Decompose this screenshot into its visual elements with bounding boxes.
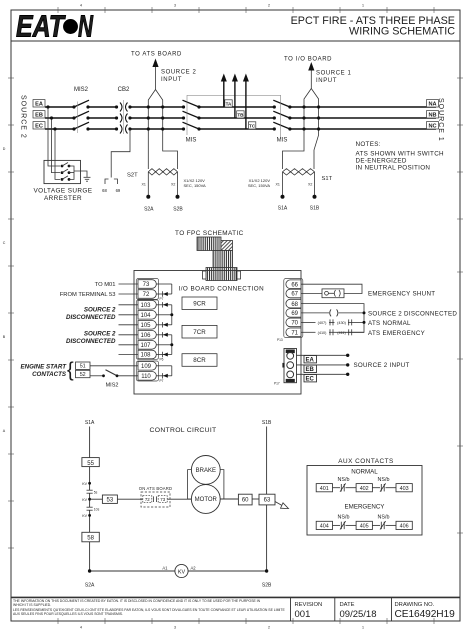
svg-text:X2: X2	[171, 183, 175, 187]
svg-text:SOURCE 2: SOURCE 2	[20, 95, 27, 139]
svg-text:403: 403	[400, 486, 409, 492]
svg-text:5s: 5s	[94, 490, 98, 494]
svg-text:S1B: S1B	[262, 420, 272, 426]
svg-text:SEC, 150VA: SEC, 150VA	[248, 183, 270, 188]
svg-text:(410): (410)	[318, 331, 328, 335]
svg-text:ENGINE START: ENGINE START	[21, 364, 68, 371]
svg-text:S2B: S2B	[262, 583, 272, 589]
svg-text:WIRING SCHEMATIC: WIRING SCHEMATIC	[349, 26, 455, 38]
svg-text:1: 1	[362, 4, 364, 8]
svg-text:X2: X2	[308, 183, 312, 187]
svg-text:S2T: S2T	[127, 173, 138, 179]
svg-text:MIS2: MIS2	[74, 87, 89, 93]
svg-text:10s: 10s	[94, 507, 100, 511]
svg-text:NS/b: NS/b	[338, 477, 350, 483]
svg-text:MOTOR: MOTOR	[195, 497, 218, 503]
svg-text:(407): (407)	[318, 321, 328, 325]
svg-text:2: 2	[268, 4, 270, 8]
svg-text:EA: EA	[35, 102, 43, 108]
svg-text:X1: X1	[276, 183, 280, 187]
svg-text:(411): (411)	[337, 331, 346, 335]
svg-text:CE16492H19: CE16492H19	[395, 609, 456, 620]
svg-text:KV: KV	[82, 514, 87, 518]
svg-text:S2B: S2B	[173, 207, 183, 213]
svg-text:DRAWING NO.: DRAWING NO.	[395, 602, 435, 608]
svg-text:EAT: EAT	[16, 9, 66, 44]
svg-text:2: 2	[268, 626, 270, 630]
svg-text:SOURCE 2 DISCONNECTED: SOURCE 2 DISCONNECTED	[368, 310, 457, 317]
svg-text:MIS: MIS	[186, 138, 197, 144]
svg-text:TO I/O BOARD: TO I/O BOARD	[284, 57, 332, 63]
svg-text:SOURCE 2: SOURCE 2	[161, 70, 197, 76]
svg-text:SOURCE 2: SOURCE 2	[84, 307, 116, 314]
svg-text:3: 3	[174, 4, 176, 8]
svg-text:NA: NA	[428, 102, 436, 108]
svg-text:N: N	[78, 9, 93, 44]
svg-text:CONTACTS: CONTACTS	[32, 371, 67, 378]
svg-text:P7: P7	[160, 379, 164, 383]
svg-text:S1A: S1A	[278, 206, 288, 212]
svg-text:EB: EB	[306, 367, 315, 373]
svg-text:EC: EC	[306, 377, 315, 383]
svg-text:60: 60	[242, 498, 249, 504]
svg-text:S1B: S1B	[310, 206, 320, 212]
svg-text:ON ATS BOARD: ON ATS BOARD	[139, 486, 173, 491]
svg-text:S2A: S2A	[85, 583, 95, 589]
svg-text:TB: TB	[237, 112, 244, 117]
svg-text:BRAKE: BRAKE	[196, 468, 216, 474]
svg-text:REVISION: REVISION	[295, 602, 323, 608]
svg-text:63: 63	[264, 498, 271, 504]
svg-text:SOURCE 2 INPUT: SOURCE 2 INPUT	[354, 362, 410, 369]
svg-text:9CR: 9CR	[193, 301, 206, 308]
svg-text:72: 72	[143, 292, 150, 298]
svg-text:P17: P17	[274, 382, 280, 386]
svg-text:09/25/18: 09/25/18	[340, 609, 377, 620]
svg-text:NORMAL: NORMAL	[351, 469, 378, 476]
svg-text:TO M01: TO M01	[95, 282, 116, 288]
svg-text:NC: NC	[428, 124, 436, 130]
svg-text:INPUT: INPUT	[316, 78, 337, 84]
svg-text:8CR: 8CR	[193, 357, 206, 364]
svg-text:KV: KV	[178, 569, 186, 575]
svg-text:NS/b: NS/b	[378, 477, 390, 483]
svg-text:NOTES:: NOTES:	[356, 141, 381, 148]
svg-text:FROM TERMINAL 53: FROM TERMINAL 53	[60, 292, 116, 298]
svg-text:110: 110	[141, 374, 151, 380]
svg-text:AUX SEULES FINS POUR LESQUELLE: AUX SEULES FINS POUR LESQUELLES ILS VOUS…	[13, 612, 123, 616]
svg-text:53: 53	[107, 498, 114, 504]
svg-text:68: 68	[291, 302, 298, 308]
svg-text:P6: P6	[160, 358, 164, 362]
svg-text:7CR: 7CR	[193, 329, 206, 336]
svg-text:67: 67	[291, 292, 298, 298]
svg-text:X1: X1	[142, 183, 146, 187]
svg-text:AUX CONTACTS: AUX CONTACTS	[338, 458, 394, 465]
svg-text:TA: TA	[226, 101, 232, 106]
svg-text:DATE: DATE	[340, 602, 355, 608]
svg-text:73: 73	[160, 497, 165, 502]
svg-text:CONTROL CIRCUIT: CONTROL CIRCUIT	[150, 427, 217, 434]
svg-text:ATS EMERGENCY: ATS EMERGENCY	[368, 330, 425, 337]
svg-text:SEC, 150VA: SEC, 150VA	[184, 183, 206, 188]
svg-text:72: 72	[145, 497, 150, 502]
svg-text:A1: A1	[162, 566, 168, 571]
svg-text:NS/b: NS/b	[338, 514, 350, 520]
svg-text:ARRESTER: ARRESTER	[44, 195, 82, 202]
svg-text:DE-ENERGIZED: DE-ENERGIZED	[356, 158, 407, 165]
svg-text:VOLTAGE SURGE: VOLTAGE SURGE	[34, 188, 93, 195]
svg-text:406: 406	[400, 524, 409, 530]
svg-text:WHICH IT IS SUPPLIED.: WHICH IT IS SUPPLIED.	[13, 603, 51, 607]
svg-text:X1/X2 120V: X1/X2 120V	[249, 178, 271, 183]
svg-text:66: 66	[291, 282, 298, 288]
svg-text:DISCONNECTED: DISCONNECTED	[66, 338, 116, 345]
svg-text:52: 52	[80, 372, 86, 378]
svg-text:{: {	[67, 360, 74, 382]
svg-text:4: 4	[80, 4, 82, 8]
svg-text:3: 3	[174, 626, 176, 630]
svg-text:71: 71	[291, 331, 298, 337]
svg-text:69: 69	[116, 188, 121, 193]
svg-text:51: 51	[80, 364, 86, 370]
svg-text:SOURCE 2: SOURCE 2	[84, 331, 116, 338]
svg-text:TC: TC	[249, 123, 256, 128]
svg-text:EB: EB	[35, 113, 43, 119]
svg-text:KV: KV	[82, 482, 87, 486]
svg-text:EMERGENCY SHUNT: EMERGENCY SHUNT	[368, 290, 435, 297]
svg-text:(430): (430)	[337, 321, 347, 325]
svg-text:55: 55	[87, 461, 94, 467]
svg-text:103: 103	[140, 303, 151, 309]
svg-text:DISCONNECTED: DISCONNECTED	[66, 314, 116, 321]
svg-text:SOURCE 1: SOURCE 1	[316, 71, 352, 77]
svg-text:P13: P13	[277, 338, 283, 342]
svg-text:X1/X2 120V: X1/X2 120V	[184, 178, 206, 183]
svg-text:EA: EA	[306, 358, 315, 364]
svg-text:INPUT: INPUT	[161, 77, 182, 83]
svg-text:69: 69	[291, 311, 298, 317]
svg-text:106: 106	[140, 333, 151, 339]
svg-text:A2: A2	[191, 566, 197, 571]
svg-text:108: 108	[140, 353, 151, 359]
svg-text:S2A: S2A	[144, 207, 154, 213]
svg-text:EC: EC	[35, 124, 43, 130]
svg-text:70: 70	[291, 321, 298, 327]
svg-text:TO ATS BOARD: TO ATS BOARD	[131, 52, 182, 58]
svg-text:ATS SHOWN WITH SWITCH: ATS SHOWN WITH SWITCH	[356, 151, 445, 158]
svg-text:1: 1	[362, 626, 364, 630]
svg-text:107: 107	[140, 343, 151, 349]
svg-text:73: 73	[143, 282, 150, 288]
svg-text:105: 105	[140, 323, 151, 329]
svg-text:NB: NB	[428, 113, 436, 119]
svg-text:ATS NORMAL: ATS NORMAL	[368, 320, 411, 327]
svg-text:IN NEUTRAL POSITION: IN NEUTRAL POSITION	[356, 165, 431, 172]
svg-text:405: 405	[360, 524, 369, 530]
svg-text:S1A: S1A	[85, 420, 95, 426]
svg-text:MIS: MIS	[277, 138, 288, 144]
svg-text:109: 109	[141, 364, 152, 370]
svg-text:58: 58	[87, 536, 94, 542]
svg-text:D: D	[3, 147, 6, 151]
svg-text:NS/b: NS/b	[378, 514, 390, 520]
svg-text:401: 401	[320, 486, 329, 492]
svg-text:TO FPC SCHEMATIC: TO FPC SCHEMATIC	[175, 230, 244, 237]
svg-text:C: C	[3, 241, 6, 245]
svg-text:68: 68	[102, 188, 107, 193]
svg-text:EMERGENCY: EMERGENCY	[345, 504, 385, 511]
svg-text:4: 4	[80, 626, 82, 630]
svg-text:MIS2: MIS2	[106, 383, 119, 389]
svg-text:CB2: CB2	[118, 87, 130, 93]
svg-text:001: 001	[295, 609, 311, 620]
svg-text:P7: P7	[160, 297, 164, 301]
svg-text:I/O BOARD CONNECTION: I/O BOARD CONNECTION	[179, 286, 265, 293]
svg-text:104: 104	[140, 313, 151, 319]
svg-text:S1T: S1T	[322, 176, 333, 182]
svg-text:402: 402	[360, 486, 369, 492]
svg-text:404: 404	[320, 524, 329, 530]
svg-text:KV: KV	[82, 498, 87, 502]
